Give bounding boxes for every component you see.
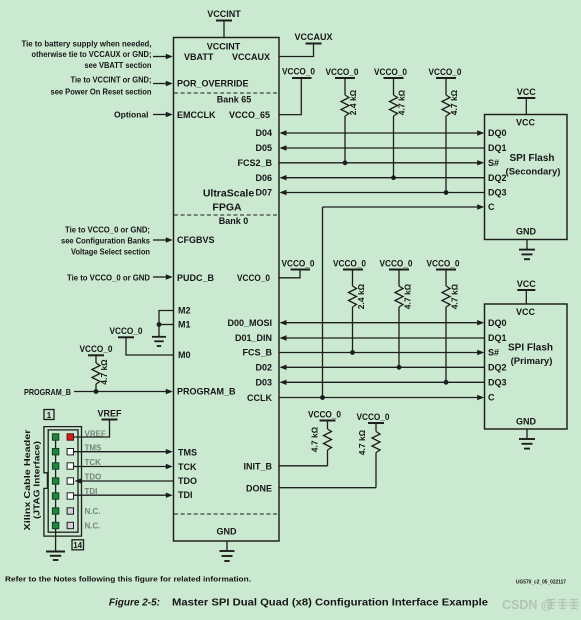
svg-text:VCC: VCC [517,87,537,97]
svg-text:VCCO_0: VCCO_0 [374,67,407,77]
svg-text:FPGA: FPGA [212,202,242,214]
wire D05 to DQ1 arrow into FPGA [280,145,485,150]
svg-text:SPI Flash: SPI Flash [509,153,554,164]
svg-text:VCCO_65: VCCO_65 [229,110,270,120]
supply VCCO_0 rail (R3) [429,67,462,78]
bank 0 dashed separator [174,214,279,216]
pin row 1 left (GND) [52,434,58,440]
svg-text:DQ0: DQ0 [488,318,507,328]
node junction R5/FCS_B [350,350,355,355]
svg-text:M2: M2 [178,306,191,316]
svg-text:VCCO_0: VCCO_0 [326,67,359,77]
resistor R4 4.7k PROGRAM_B pull-up [92,355,100,391]
supply VCC rail secondary [517,87,537,115]
svg-text:4.7 kΩ: 4.7 kΩ [99,359,109,385]
wire M1 to ground rail [159,324,174,326]
svg-text:14: 14 [73,541,82,550]
supply VCC rail primary [517,279,537,304]
svg-text:S#: S# [488,348,499,358]
wire TDI to FPGA arrow [74,493,173,498]
svg-text:VCCO_0: VCCO_0 [282,258,315,268]
svg-text:CSDN @: CSDN @ [502,598,553,612]
svg-text:GND: GND [217,527,238,537]
svg-text:D05: D05 [255,143,272,153]
U3 name SPI Flash (Primary) [508,343,553,368]
svg-text:GND: GND [516,227,537,237]
resistor R2 4.7k D06 pull-up [390,78,398,178]
pin row 3 left [52,463,58,469]
resistor R7 4.7k D03 pull-up [442,270,450,383]
resistor R5 2.4k FCS_B pull-up [349,270,357,353]
svg-text:D06: D06 [255,173,272,183]
svg-text:Refer to the Notes following t: Refer to the Notes following this figure… [5,575,251,584]
svg-text:VCCAUX: VCCAUX [294,32,332,42]
resistor R1 2.4k FCS2_B pull-up [341,78,349,163]
svg-text:CFGBVS: CFGBVS [177,235,215,245]
svg-text:Xilinx Cable Header: Xilinx Cable Header [23,430,32,531]
arrow into POR_OVERRIDE pin [153,81,173,86]
svg-text:N.C.: N.C. [85,507,101,516]
svg-text:D07: D07 [255,188,272,198]
supply VCCO_0 rail (R9 DONE) [357,412,390,423]
svg-text:DQ0: DQ0 [488,128,507,138]
resistor R8 4.7k INIT_B pull-up [324,422,332,466]
svg-text:4.7 kΩ: 4.7 kΩ [310,426,320,452]
svg-text:PROGRAM_B: PROGRAM_B [177,387,236,397]
svg-text:C: C [488,202,495,212]
annotation POR_OVERRIDE note [51,74,152,96]
supply VCCO_0 rail (R8 INIT_B) [308,409,341,420]
node junction R7/D03 [444,380,449,385]
annotation CFGBVS note [61,224,150,256]
wire D06 to DQ2 arrow into FPGA [280,175,485,180]
watermark CSDN [502,598,579,612]
svg-text:Tie to VCCO_0 or GND: Tie to VCCO_0 or GND [67,272,150,282]
pin row 6 right N.C. [67,508,73,514]
svg-text:VREF: VREF [97,408,122,418]
arrow into EMCCLK pin [153,112,173,117]
svg-text:D01_DIN: D01_DIN [235,333,272,343]
svg-text:4.7 kΩ: 4.7 kΩ [449,89,459,115]
wire D04 to DQ0 with arrows both ends [280,130,485,135]
svg-text:Tie to VCCINT or GND;: Tie to VCCINT or GND; [71,74,152,84]
supply VCCO_0 rail (R2) [374,67,407,78]
svg-text:TCK: TCK [85,458,102,467]
figure caption [109,598,488,609]
svg-text:VCCO_0: VCCO_0 [427,258,460,268]
svg-text:Tie to battery supply when nee: Tie to battery supply when needed, [22,38,152,48]
node junction M1/M2 ground [157,322,162,327]
node junction R2/D06 [391,175,396,180]
annotation VBATT note [22,38,152,70]
svg-text:Optional: Optional [114,110,148,120]
svg-text:SPI Flash: SPI Flash [508,343,553,354]
svg-text:(JTAG Interface): (JTAG Interface) [33,441,42,519]
ground symbol secondary flash [519,240,535,260]
node junction R1/FCS2_B [343,160,348,165]
supply VREF rail [97,408,122,419]
svg-text:VCCO_0: VCCO_0 [282,67,315,77]
svg-text:DQ1: DQ1 [488,143,507,153]
svg-text:M0: M0 [178,350,191,360]
SPI Flash secondary U2 block [485,115,568,240]
svg-text:TCK: TCK [178,462,197,472]
svg-text:4.7 kΩ: 4.7 kΩ [450,283,460,309]
svg-text:D02: D02 [255,362,272,372]
svg-text:TDI: TDI [178,490,193,500]
svg-text:DQ1: DQ1 [488,333,507,343]
wire D03 to DQ3 arrow into FPGA [280,380,485,385]
ground symbol at M1/M2 [152,337,166,346]
svg-text:(Primary): (Primary) [511,356,553,367]
svg-text:DONE: DONE [246,483,272,493]
bottom dashed separator [174,513,279,515]
svg-text:2.4 kΩ: 2.4 kΩ [348,89,358,115]
svg-text:see Configuration Banks: see Configuration Banks [61,235,150,245]
svg-text:VCCINT: VCCINT [207,42,241,52]
svg-text:PROGRAM_B: PROGRAM_B [24,387,71,397]
pin row 6 left [52,508,58,514]
svg-text:S#: S# [488,158,499,168]
svg-text:VCCO_0: VCCO_0 [380,258,413,268]
svg-text:VCCO_0: VCCO_0 [429,67,462,77]
svg-text:TDO: TDO [178,476,197,486]
supply VCCO_0 rail (R6) [380,258,413,269]
pin row 7 left [52,522,58,528]
wire TDO from FPGA arrow into header [75,478,175,483]
svg-text:UG570_c2_05_022117: UG570_c2_05_022117 [516,580,566,586]
svg-text:see VBATT section: see VBATT section [85,60,152,70]
svg-text:DQ2: DQ2 [488,363,507,373]
svg-text:D03: D03 [255,377,272,387]
svg-text:FCS2_B: FCS2_B [237,158,272,168]
resistor R6 4.7k D02 pull-up [395,270,403,368]
svg-text:POR_OVERRIDE: POR_OVERRIDE [177,79,249,89]
svg-text:TMS: TMS [178,447,197,457]
FPGA U1 block outline [174,38,280,542]
svg-text:Voltage Select section: Voltage Select section [71,246,150,256]
svg-text:UltraScale: UltraScale [203,188,255,200]
svg-text:Bank 65: Bank 65 [217,95,252,105]
svg-text:N.C.: N.C. [85,522,101,531]
ground symbol primary flash [519,429,535,449]
wire CCLK to C arrow into flash [279,395,484,400]
supply VCCAUX rail [294,32,332,44]
svg-text:CCLK: CCLK [247,393,272,403]
supply VCCO_0 rail (PROGRAM_B pull-up) [80,344,113,355]
svg-text:(Secondary): (Secondary) [506,167,561,178]
supply VCCINT top rail [207,9,241,38]
supply VCCO_0 rail (VCCO_65) [282,67,315,79]
supply VCCO_0 rail (R7) [427,258,460,269]
wire D02 to DQ2 arrow into FPGA [280,365,485,370]
svg-text:VCCO_0: VCCO_0 [237,273,270,283]
wire TCK to FPGA arrow [74,464,173,469]
svg-text:2.4 kΩ: 2.4 kΩ [356,283,366,309]
node junction PROGRAM_B pull-up [94,389,99,394]
pin row 2 left [52,449,58,455]
JTAG header J1 inner shell [48,430,78,532]
wire VCCO_0 rail to VCCO_65 pin [279,78,301,115]
ground symbol FPGA GND [220,541,235,561]
svg-text:VCCO_0: VCCO_0 [357,412,390,422]
svg-text:VCCAUX: VCCAUX [232,52,270,62]
wire D01_DIN to DQ1 arrow into FPGA [280,335,485,340]
svg-text:Tie to VCCO_0 or GND;: Tie to VCCO_0 or GND; [65,224,150,234]
ground symbol JTAG header [46,552,65,561]
svg-text:C: C [488,393,495,403]
svg-text:TMS: TMS [85,443,103,452]
svg-text:PUDC_B: PUDC_B [177,273,215,283]
svg-text:VCCO_0: VCCO_0 [110,326,143,336]
wire secondary C to CCLK net [323,204,485,397]
svg-text:VCCO_0: VCCO_0 [333,258,366,268]
wire DONE to pull-up [279,487,376,489]
JTAG header J1 outer shell [44,427,82,536]
svg-text:FCS_B: FCS_B [242,348,272,358]
wire PROGRAM_B with arrow into pin [74,389,173,394]
wire VCCO_0 rail to VCCO_0 pin [279,270,300,278]
wire M2 to ground rail [159,311,174,337]
bank 65 dashed separator [174,92,279,94]
wire VREF pin to rail [74,420,110,438]
svg-text:M1: M1 [178,320,191,330]
pin row 7 right N.C. [67,522,73,528]
svg-text:VCCO_0: VCCO_0 [308,409,341,419]
svg-text:Figure 2-5:: Figure 2-5: [109,598,160,609]
node junction R6/D02 [397,365,402,370]
supply VCCO_0 rail (R1) [326,67,359,78]
svg-text:VCC: VCC [516,118,536,128]
svg-text:see Power On Reset section: see Power On Reset section [51,86,152,96]
node junction CCLK/C branch [320,395,325,400]
svg-text:DQ3: DQ3 [488,378,507,388]
supply VCCO_0 rail (R5) [333,258,366,269]
arrow into PUDC_B pin [153,274,173,279]
svg-text:DQ3: DQ3 [488,188,507,198]
pin row 2 right TMS [67,449,73,455]
svg-text:Master SPI Dual Quad (x8) Conf: Master SPI Dual Quad (x8) Configuration … [172,598,488,609]
svg-text:Bank 0: Bank 0 [219,216,249,226]
SPI Flash primary U3 block [485,304,568,429]
svg-text:INIT_B: INIT_B [243,461,272,471]
pin row 5 right TDI [67,493,73,499]
svg-text:4.7 kΩ: 4.7 kΩ [397,89,407,115]
svg-text:4.7 kΩ: 4.7 kΩ [403,283,413,309]
pin row 5 left [52,493,58,499]
wire left pin column to ground [55,437,57,552]
pin 14 marker box [72,540,84,550]
svg-text:otherwise tie to VCCAUX or GND: otherwise tie to VCCAUX or GND; [32,49,152,59]
svg-text:TDO: TDO [85,473,102,482]
wire FCS2_B to S# arrow into flash [279,160,484,165]
arrow into VBATT pin [153,54,173,59]
svg-text:VCC: VCC [517,279,537,289]
svg-text:VCCINT: VCCINT [207,9,241,19]
pin 1 marker box [44,410,54,420]
svg-text:EMCCLK: EMCCLK [177,110,216,120]
resistor R3 4.7k D07 pull-up [442,78,450,193]
svg-text:VCCO_0: VCCO_0 [80,344,113,354]
svg-text:1: 1 [47,411,52,420]
svg-text:D00_MOSI: D00_MOSI [227,318,272,328]
svg-text:DQ2: DQ2 [488,173,507,183]
pin row 3 right TCK [67,463,73,469]
U2 name SPI Flash (Secondary) [506,153,561,178]
wire VCCAUX pin to rail [279,44,314,57]
wire D07 to DQ3 arrow into FPGA [280,190,485,195]
pin row 4 right TDO [67,478,73,484]
pin row 4 left [52,478,58,484]
supply VCCO_0 rail (M0) [110,326,143,337]
pin row 1 right VREF (red) [67,434,73,440]
node junction R3/D07 [444,190,449,195]
svg-text:D04: D04 [255,128,272,138]
resistor R9 4.7k DONE pull-up [372,424,380,488]
wire TMS to FPGA arrow [74,449,173,454]
wire D00_MOSI to DQ0 arrows both ends [280,320,485,325]
svg-text:VCC: VCC [516,307,536,317]
wire VCCO_0 rail to M0 pin [126,337,174,355]
svg-text:VBATT: VBATT [184,52,214,62]
svg-text:GND: GND [516,417,537,427]
supply VCCO_0 rail (PUDC_B) [282,258,315,269]
arrow into CFGBVS pin [153,237,173,242]
wire INIT_B to pull-up [279,465,328,467]
wire FCS_B to S# arrow into flash [279,350,484,355]
svg-text:4.7 kΩ: 4.7 kΩ [357,429,367,455]
